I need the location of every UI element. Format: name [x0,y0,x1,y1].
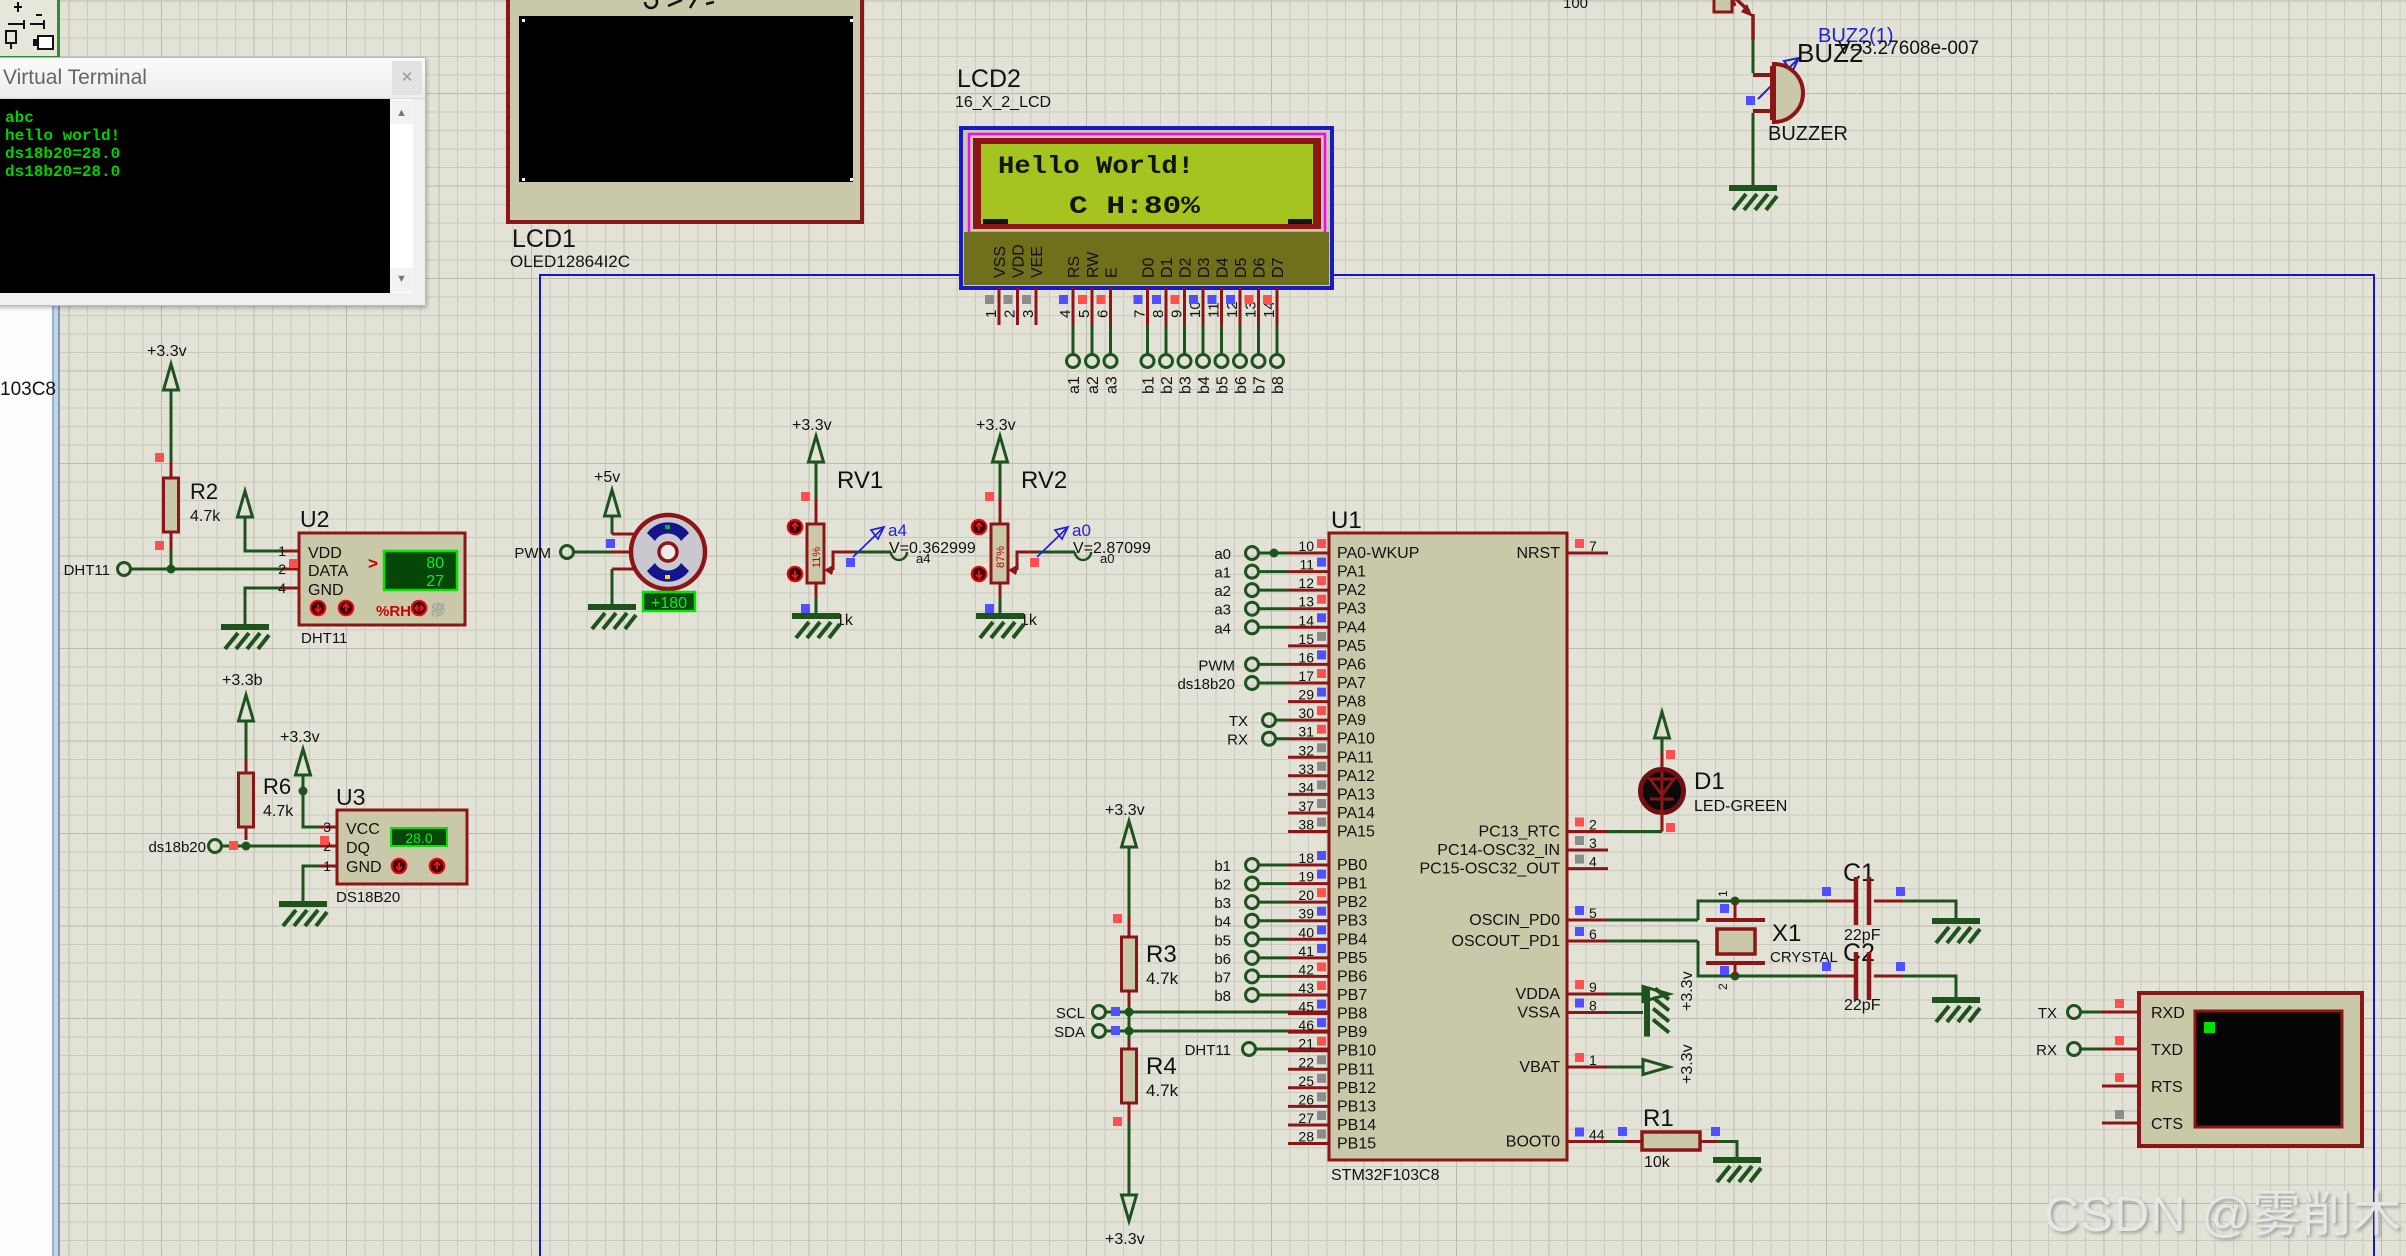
wire OSCOUT_PD1 to crystal/C2 [1608,941,1855,981]
power +5v (motor) [594,469,620,534]
svg-text:NRST: NRST [1516,545,1560,562]
terminal b8 [1214,988,1288,1005]
svg-text:PA13: PA13 [1337,786,1375,803]
U1 pin 9 VDDA [1516,979,1608,1003]
svg-text:PB3: PB3 [1337,913,1367,930]
sheet border (blue) [540,275,2374,1256]
wire buzzer to ground [1752,113,1755,186]
svg-text:PA4: PA4 [1337,619,1366,636]
RV1 voltage annotation [889,540,976,557]
terminal TX (right) [2038,1005,2102,1022]
svg-text:BUZZER: BUZZER [1768,123,1848,145]
power +3.3v down (below R4) [1105,1121,1145,1248]
svg-text:SCL: SCL [1056,1005,1085,1022]
LCD2 pin 4 RS [1057,256,1083,355]
svg-text:4: 4 [1589,854,1597,870]
power +3.3v (U3 VCC) [280,729,337,827]
U1 pin 1 VBAT [1519,1052,1608,1076]
svg-text:BOOT0: BOOT0 [1506,1134,1560,1151]
svg-text:SDA: SDA [1054,1024,1085,1041]
svg-text:U3: U3 [336,784,365,810]
resistor R6 [239,760,295,840]
svg-text:RV1: RV1 [837,467,883,494]
crystal X1 [1706,890,1838,990]
terminal b1 [1141,355,1158,395]
svg-text:27: 27 [426,573,444,590]
svg-text:80: 80 [426,555,444,572]
svg-text:a0: a0 [1214,546,1231,563]
svg-text:OSCOUT_PD1: OSCOUT_PD1 [1452,933,1561,950]
U1 pin 7 NRST [1516,538,1608,562]
svg-text:PA1: PA1 [1337,564,1366,581]
svg-text:+3.3v: +3.3v [1105,802,1145,819]
terminal b4 [1196,355,1213,395]
svg-text:8: 8 [1150,310,1167,318]
svg-text:10k: 10k [1644,1154,1671,1171]
svg-text:a4: a4 [916,551,930,566]
svg-text:b7: b7 [1214,969,1231,986]
U1 pin 29 PA8 [1288,687,1366,711]
svg-text:2: 2 [1002,310,1019,318]
svg-text:30: 30 [1298,705,1314,721]
terminal SCL [1056,1005,1106,1022]
LCD2 pin 7 D0 [1132,257,1158,355]
svg-text:R3: R3 [1146,941,1177,968]
svg-text:39: 39 [1298,906,1314,922]
svg-text:32: 32 [1298,742,1314,758]
terminal SDA [1054,1024,1105,1041]
virtual terminal instrument VT1 body [2139,993,2362,1146]
terminal b1 [1214,858,1288,875]
svg-text:RV2: RV2 [1021,467,1067,494]
svg-text:a3: a3 [1214,602,1231,619]
svg-text:DQ: DQ [346,840,370,857]
LCD1 value label OLED12864I2C [510,252,630,271]
terminal b6 [1214,951,1288,968]
svg-text:14: 14 [1298,612,1314,628]
svg-text:1: 1 [278,543,286,559]
power +3.3v (RV1) [792,417,832,497]
svg-text:VDD: VDD [1011,244,1028,278]
svg-text:2: 2 [1716,983,1730,990]
buzzer value label BUZZER [1768,123,1848,145]
U1 pin 44 BOOT0 [1506,1127,1608,1151]
LCD2 screen cursor marks [983,219,1312,224]
svg-text:b4: b4 [1214,914,1231,931]
svg-text:6: 6 [1589,926,1597,942]
wire PWM to motor [574,551,635,554]
svg-text:R6: R6 [263,774,291,799]
wire U2 GND to ground [245,588,299,625]
svg-text:4.7k: 4.7k [263,803,294,820]
svg-text:%RH: %RH [376,603,411,620]
svg-text:PB2: PB2 [1337,894,1367,911]
svg-text:46: 46 [1298,1017,1314,1033]
wire PC13 to D1 [1608,830,1662,833]
terminal b3 [1214,895,1288,912]
U1 pin 16 PA6 [1288,649,1366,673]
ground (R1) [1713,1160,1761,1182]
capacitor C2 22pF [1822,939,1905,1014]
RV2 voltage annotation [1073,540,1151,557]
LCD2 pin 6 E [1095,267,1121,355]
svg-text:87%: 87% [995,546,1007,568]
LCD1 cut-off top decoration [645,0,714,8]
svg-text:PB6: PB6 [1337,968,1367,985]
svg-text:STM32F103C8: STM32F103C8 [1331,1167,1440,1184]
power +3.3v (U2 VDD) [238,491,300,551]
svg-text:OSCIN_PD0: OSCIN_PD0 [1469,912,1560,929]
svg-text:b4: b4 [1196,376,1213,394]
svg-text:5: 5 [1076,310,1093,318]
U1 pin 34 PA13 [1288,779,1375,803]
svg-text:a4: a4 [888,521,907,540]
U1 pin 3 PC14-OSC32_IN [1437,835,1608,859]
wire R1 to ground [1717,1142,1737,1159]
U1 pin 19 PB1 [1288,869,1367,893]
svg-text:40: 40 [1298,924,1314,940]
svg-text:RX: RX [2036,1042,2057,1059]
svg-text:PA5: PA5 [1337,638,1366,655]
svg-text:22: 22 [1298,1054,1314,1070]
svg-text:1: 1 [983,310,1000,318]
svg-text:PA8: PA8 [1337,694,1366,711]
terminal PWM (to PA6) [1198,657,1288,674]
svg-text:b3: b3 [1178,376,1195,394]
svg-text:4.7k: 4.7k [1146,969,1179,988]
U1 pin 41 PB5 [1288,943,1367,967]
wire C2 to ground [1903,976,1956,998]
svg-text:26: 26 [1298,1091,1314,1107]
svg-text:D5: D5 [1233,257,1250,278]
LCD2 pin 8 D1 [1150,257,1176,355]
resistor (partial, top edge) 100 [1563,0,1732,12]
terminal b2 [1214,877,1288,894]
power +3.3v (R3) [1105,802,1145,916]
terminal a4 [1214,620,1288,637]
svg-text:X1: X1 [1772,920,1801,947]
svg-text:b3: b3 [1214,895,1231,912]
svg-text:28.0: 28.0 [405,830,432,846]
LCD2 pin 12 D5 [1224,257,1250,355]
svg-text:PB15: PB15 [1337,1136,1376,1153]
svg-text:3: 3 [323,819,331,835]
svg-text:+3.3v: +3.3v [147,343,187,360]
svg-text:2: 2 [1589,817,1597,833]
svg-text:27: 27 [1298,1110,1314,1126]
svg-text:b1: b1 [1141,376,1158,394]
svg-text:PB13: PB13 [1337,1098,1376,1115]
capacitor C1 22pF [1822,859,1905,944]
power +3.3v (VBAT, right arrow) [1608,1044,1696,1084]
svg-text:VDD: VDD [308,545,342,562]
svg-text:ds18b20: ds18b20 [148,839,206,856]
LCD2 value label 16_X_2_LCD [955,94,1051,111]
svg-text:11%: 11% [811,547,823,568]
terminal a1 [1066,355,1083,395]
motor servo pins [606,534,635,605]
svg-text:41: 41 [1298,943,1314,959]
terminal b7 [1252,355,1269,395]
terminal a3 [1104,355,1121,395]
U1 pin 27 PB14 [1288,1110,1376,1134]
svg-text:+3.3v: +3.3v [1679,971,1696,1011]
LCD2 pin 10 D3 [1187,257,1213,355]
svg-text:VSSA: VSSA [1517,1005,1560,1022]
ground (RV2) [976,616,1024,638]
power +3.3v (VDDA, right arrow) [1608,971,1696,1011]
svg-text:R2: R2 [190,479,218,504]
svg-text:9: 9 [1169,310,1186,318]
svg-text:+3.3v: +3.3v [792,417,832,434]
svg-text:RW: RW [1085,251,1102,278]
svg-text:PA7: PA7 [1337,675,1366,692]
svg-text:PC13_RTC: PC13_RTC [1478,824,1560,841]
terminal b5 [1215,355,1232,395]
terminal a2 [1214,583,1288,600]
svg-text:45: 45 [1298,999,1314,1015]
U1 pin 43 PB7 [1288,980,1367,1004]
wire SCL to PB8 [1106,1005,1329,1017]
svg-text:3: 3 [1589,835,1597,851]
svg-text:b6: b6 [1214,951,1231,968]
power +3.3v (R2) [147,343,187,461]
svg-text:PA0-WKUP: PA0-WKUP [1337,545,1419,562]
svg-text:PB0: PB0 [1337,857,1367,874]
svg-text:TX: TX [2038,1005,2057,1022]
ground (U3) [279,904,327,926]
U1 pin 32 PA11 [1288,742,1374,766]
RV1 net label a4 [916,551,930,566]
svg-text:b5: b5 [1214,932,1231,949]
U1 pin 40 PB4 [1288,924,1367,948]
svg-text:b1: b1 [1214,858,1231,875]
terminal b3 [1178,355,1195,395]
svg-text:1: 1 [1589,1052,1597,1068]
svg-text:15: 15 [1298,631,1314,647]
wire ds18b20 net [222,841,337,851]
svg-text:10: 10 [1298,538,1314,554]
svg-text:a0: a0 [1072,521,1091,540]
svg-text:D1: D1 [1159,257,1176,278]
U1 pin 39 PB3 [1288,906,1367,930]
svg-text:11: 11 [1206,302,1223,318]
svg-text:RS: RS [1066,256,1083,278]
LCD2 pin 2 VDD [1002,244,1028,325]
svg-text:+3.3b: +3.3b [222,672,263,689]
svg-text:12: 12 [1298,575,1314,591]
svg-text:1: 1 [1716,890,1730,897]
svg-text:4.7k: 4.7k [190,508,221,525]
svg-text:V=0.362999: V=0.362999 [889,540,976,557]
svg-text:TX: TX [1229,713,1248,730]
DS18B20 sensor U3 body [320,784,467,884]
U1 pin 25 PB12 [1288,1073,1376,1097]
wire U3 GND to ground [303,866,337,902]
U1 pin 30 PA9 [1288,705,1366,729]
svg-text:VBAT: VBAT [1519,1059,1560,1076]
U1 pin 22 PB11 [1288,1054,1375,1078]
terminal a3 [1214,602,1288,619]
ground (RV1) [792,616,840,638]
U1 pin 38 PA15 [1288,817,1375,841]
LCD2 pin 3 VEE [1020,246,1046,325]
power +3.3v (RV2) [976,417,1016,497]
svg-text:b5: b5 [1215,376,1232,394]
ground (U2) [221,627,269,649]
svg-text:PB14: PB14 [1337,1117,1376,1134]
U1 pin 18 PB0 [1288,850,1367,874]
svg-text:33: 33 [1298,761,1314,777]
svg-text:D0: D0 [1141,257,1158,278]
U1 pin 10 PA0-WKUP [1288,538,1419,562]
svg-text:RX: RX [1227,732,1248,749]
terminal RX (left) [1227,732,1288,749]
motor servo M1 body [631,515,705,589]
LED D1 LED-GREEN [1641,750,1788,832]
svg-text:LCD2: LCD2 [957,65,1021,93]
svg-text:VCC: VCC [346,821,380,838]
svg-text:37: 37 [1298,798,1314,814]
svg-text:D4: D4 [1215,257,1232,278]
wire OSCIN_PD0 to crystal/C1 [1608,897,1855,921]
U1 pin 37 PA14 [1288,798,1375,822]
svg-text:17: 17 [1298,668,1314,684]
ground (buzzer) [1729,188,1777,210]
svg-text:OLED12864I2C: OLED12864I2C [510,252,630,271]
U1 pin 42 PB6 [1288,961,1367,985]
terminal RX (right) [2036,1042,2102,1059]
svg-text:b2: b2 [1159,376,1176,394]
svg-text:PB8: PB8 [1337,1006,1367,1023]
svg-text:LED-GREEN: LED-GREEN [1694,798,1787,815]
RV2 net label a0 [1100,551,1114,566]
svg-text:RTS: RTS [2151,1079,2183,1096]
svg-text:PB4: PB4 [1337,931,1367,948]
svg-text:>: > [368,554,378,573]
svg-text:+3.3v: +3.3v [1679,1044,1696,1084]
RV2 wiper wire to a0 [1008,552,1091,575]
U1 pin 21 PB10 [1288,1036,1376,1060]
U1 pin 31 PA10 [1288,724,1375,748]
U1 pin 14 PA4 [1288,612,1366,636]
svg-text:6: 6 [1095,310,1112,318]
svg-text:b6: b6 [1233,376,1250,394]
power +3.3v (D1) [1655,712,1670,753]
svg-text:C H:80%: C H:80% [1069,192,1201,221]
terminal DHT11 (left) [64,562,131,579]
svg-text:ds18b20: ds18b20 [1177,676,1235,693]
LCD1 OLED display module body [508,0,862,222]
svg-text:R4: R4 [1146,1053,1177,1080]
svg-text:b7: b7 [1252,376,1269,394]
VT1 pin RTS [2102,1073,2139,1086]
motor angle display +180 [643,592,695,612]
svg-text:a4: a4 [1214,620,1231,637]
svg-text:DHT11: DHT11 [64,562,110,579]
svg-text:a2: a2 [1214,583,1231,600]
LCD2 16x2 LCD body [961,128,1332,288]
svg-text:PC15-OSC32_OUT: PC15-OSC32_OUT [1420,861,1561,878]
buzzer voltage annotation [1838,38,1979,59]
svg-text:PA11: PA11 [1337,749,1374,766]
svg-text:PC14-OSC32_IN: PC14-OSC32_IN [1437,842,1560,859]
buzzer BUZ2 probe label [1758,25,1894,99]
terminal ds18b20 (to PA7) [1177,676,1288,693]
svg-text:PA12: PA12 [1337,768,1375,785]
LCD2 pin 1 VSS [983,246,1009,325]
svg-text:31: 31 [1298,724,1314,740]
overlay windows [0,0,52,1256]
svg-text:LCD1: LCD1 [512,225,576,253]
svg-text:R1: R1 [1643,1105,1674,1132]
ground (C2) [1932,1000,1980,1022]
svg-text:VEE: VEE [1029,246,1046,278]
svg-text:RXD: RXD [2151,1005,2185,1022]
svg-text:GND: GND [308,582,344,599]
U3 value label DS18B20 [336,889,400,906]
U2 value label DHT11 [301,630,347,647]
svg-text:+3.3v: +3.3v [976,417,1016,434]
svg-text:PA2: PA2 [1337,582,1366,599]
svg-text:b2: b2 [1214,877,1231,894]
LCD1 reference label [512,225,576,253]
DHT11 sensor U2 body [278,506,465,625]
VT1 pin RXD [2102,999,2139,1012]
U1 pin 6 OSCOUT_PD1 [1452,926,1608,950]
svg-text:13: 13 [1298,594,1314,610]
svg-text:DS18B20: DS18B20 [336,889,400,906]
svg-text:瘮: 瘮 [431,602,446,619]
svg-text:18: 18 [1298,850,1314,866]
svg-text:PA9: PA9 [1337,712,1366,729]
U1 pin 2 PC13_RTC [1478,817,1608,841]
svg-text:+3.3v: +3.3v [1105,1231,1145,1248]
U1 pin 5 OSCIN_PD0 [1469,905,1608,929]
power +3.3b (R6) [222,672,263,760]
svg-text:2: 2 [278,561,286,577]
LCD2 pin 5 RW [1076,251,1102,355]
wire SDA to PB9 [1106,1012,1329,1040]
terminal ds18b20 (left) [148,839,221,856]
potentiometer RV1 [788,467,884,629]
svg-text:25: 25 [1298,1073,1314,1089]
svg-text:34: 34 [1298,779,1314,795]
RV1 wiper wire to a4 [824,552,907,575]
U1 pin 4 PC15-OSC32_OUT [1420,854,1609,878]
svg-text:1: 1 [323,858,331,874]
svg-text:a3: a3 [1104,376,1121,394]
LCD2 pin 14 D7 [1261,257,1287,355]
svg-text:16: 16 [1298,649,1314,665]
svg-text:D1: D1 [1694,768,1725,795]
svg-text:4.7k: 4.7k [1146,1081,1179,1100]
svg-text:TXD: TXD [2151,1042,2183,1059]
U1 pin 8 VSSA [1517,998,1608,1022]
U1 pin 12 PA2 [1288,575,1366,599]
terminal DHT11 (to PB10) [1185,1042,1329,1059]
svg-text:44: 44 [1589,1127,1605,1143]
svg-text:a0: a0 [1100,551,1114,566]
svg-text:+180: +180 [651,595,687,612]
terminal b4 [1214,914,1288,931]
svg-text:PB12: PB12 [1337,1080,1376,1097]
svg-text:PA14: PA14 [1337,805,1375,822]
terminal PWM (left) [514,545,573,562]
svg-text:a1: a1 [1214,565,1231,582]
svg-text:PB1: PB1 [1337,876,1367,893]
svg-text:D6: D6 [1252,257,1269,278]
